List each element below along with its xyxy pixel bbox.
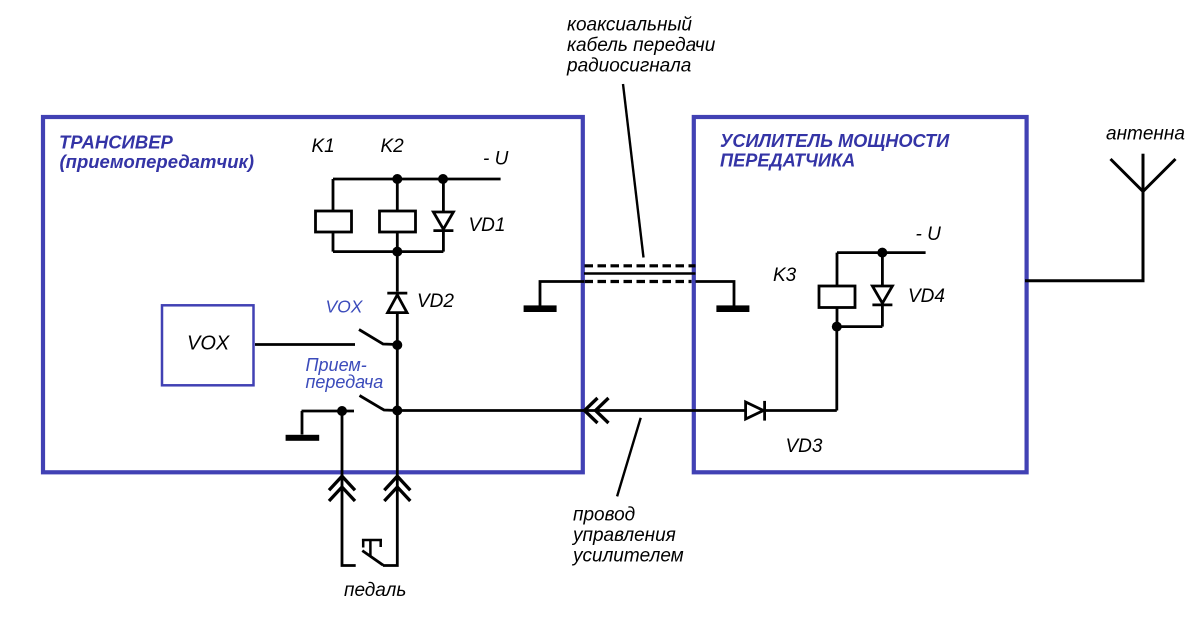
wire amp rail -U	[837, 251, 926, 254]
wire coax shield to right ground	[696, 282, 735, 306]
wire bottom bus	[333, 250, 443, 253]
leader line control label	[617, 418, 641, 497]
antenna	[1111, 154, 1176, 192]
svg-text:ПЕРЕДАТЧИКА: ПЕРЕДАТЧИКА	[720, 151, 855, 171]
node rail K2	[392, 174, 402, 184]
coax cable shield bottom	[585, 280, 692, 283]
label Прием-передача	[306, 355, 384, 392]
coax cable center conductor	[584, 272, 696, 275]
label УСИЛИТЕЛЬ МОЩНОСТИ ПЕРЕДАТЧИКА	[720, 131, 950, 171]
label ТРАНСИВЕР (приемопередатчик)	[59, 132, 254, 173]
switch VOX blade	[359, 330, 397, 345]
svg-text:радиосигнала: радиосигнала	[566, 56, 691, 77]
label провод управления усилителем	[571, 505, 684, 567]
diode VD1	[433, 212, 453, 231]
svg-text:усилителем: усилителем	[571, 546, 684, 567]
relay coil K1	[316, 211, 352, 232]
svg-text:VD1: VD1	[469, 215, 506, 236]
svg-text:VD3: VD3	[786, 436, 823, 457]
svg-text:провод: провод	[573, 505, 635, 526]
ground coax right	[716, 305, 749, 312]
amplifier box	[694, 117, 1027, 472]
leader line coax label	[623, 84, 644, 258]
connector chevrons control wire	[585, 398, 609, 423]
wire to VD2	[396, 252, 399, 292]
wire K3 branch	[836, 253, 839, 327]
connector chevrons pedal right	[384, 476, 410, 501]
node pedal branch	[337, 406, 347, 416]
svg-text:педаль: педаль	[344, 580, 406, 601]
svg-text:VD2: VD2	[417, 291, 454, 312]
svg-text:K1: K1	[312, 136, 335, 157]
svg-text:УСИЛИТЕЛЬ МОЩНОСТИ: УСИЛИТЕЛЬ МОЩНОСТИ	[720, 131, 950, 151]
wire coax shield to left ground	[540, 282, 584, 306]
node bottom bus	[392, 247, 402, 257]
node TX control	[392, 406, 402, 416]
svg-text:(приемопередатчик): (приемопередатчик)	[60, 151, 255, 172]
pedal actuator symbol	[362, 540, 382, 557]
wire VD2 node to TX node	[396, 345, 399, 411]
wire VD4 branch	[881, 253, 884, 327]
diode VD4	[872, 286, 892, 305]
relay coil K2	[380, 211, 416, 232]
wire K3 node to control line	[766, 327, 837, 411]
transceiver box	[43, 117, 583, 472]
wire control line	[397, 409, 745, 412]
svg-text:- U: - U	[916, 224, 942, 245]
svg-text:коаксиальный: коаксиальный	[567, 15, 692, 36]
wire VOX block to switch	[255, 343, 355, 346]
ground TX	[301, 411, 304, 435]
svg-text:VD4: VD4	[908, 286, 945, 307]
switch Прием-передача blade	[360, 396, 398, 411]
VOX block	[162, 305, 254, 385]
relay coil K3	[819, 286, 855, 308]
wire K2 branch	[396, 179, 399, 252]
diode VD2	[387, 293, 407, 345]
node VOX switch	[392, 340, 402, 350]
coax cable shield top	[585, 264, 696, 267]
svg-text:VOX: VOX	[326, 297, 364, 317]
svg-text:антенна: антенна	[1106, 124, 1185, 145]
svg-text:VOX: VOX	[187, 333, 230, 355]
wire ground to fixed contact	[302, 410, 355, 413]
svg-text:K2: K2	[381, 136, 405, 157]
svg-text:ТРАНСИВЕР: ТРАНСИВЕР	[59, 132, 174, 153]
wire antenna feed	[1025, 192, 1143, 281]
connector chevrons pedal left	[329, 476, 355, 501]
svg-text:- U: - U	[483, 149, 509, 170]
diode VD3	[746, 401, 765, 421]
svg-text:передача: передача	[306, 372, 384, 392]
wire VD1 branch	[442, 179, 445, 252]
wire pedal left drop	[342, 411, 356, 566]
svg-text:кабель передачи: кабель передачи	[567, 35, 716, 56]
node rail VD1	[438, 174, 448, 184]
wire pedal right drop	[383, 411, 397, 566]
node amp rail	[877, 248, 887, 258]
ground coax left	[524, 305, 557, 312]
svg-text:K3: K3	[773, 265, 797, 286]
svg-text:управления: управления	[571, 525, 676, 546]
node K3 bottom	[832, 322, 842, 332]
wire K1 branch	[332, 179, 335, 252]
label коаксиальный кабель передачи радиосигнала	[566, 15, 716, 77]
switch pedal blade	[362, 551, 383, 566]
wire K3/VD4 bottom join	[837, 325, 883, 328]
wire top rail -U	[333, 178, 501, 181]
